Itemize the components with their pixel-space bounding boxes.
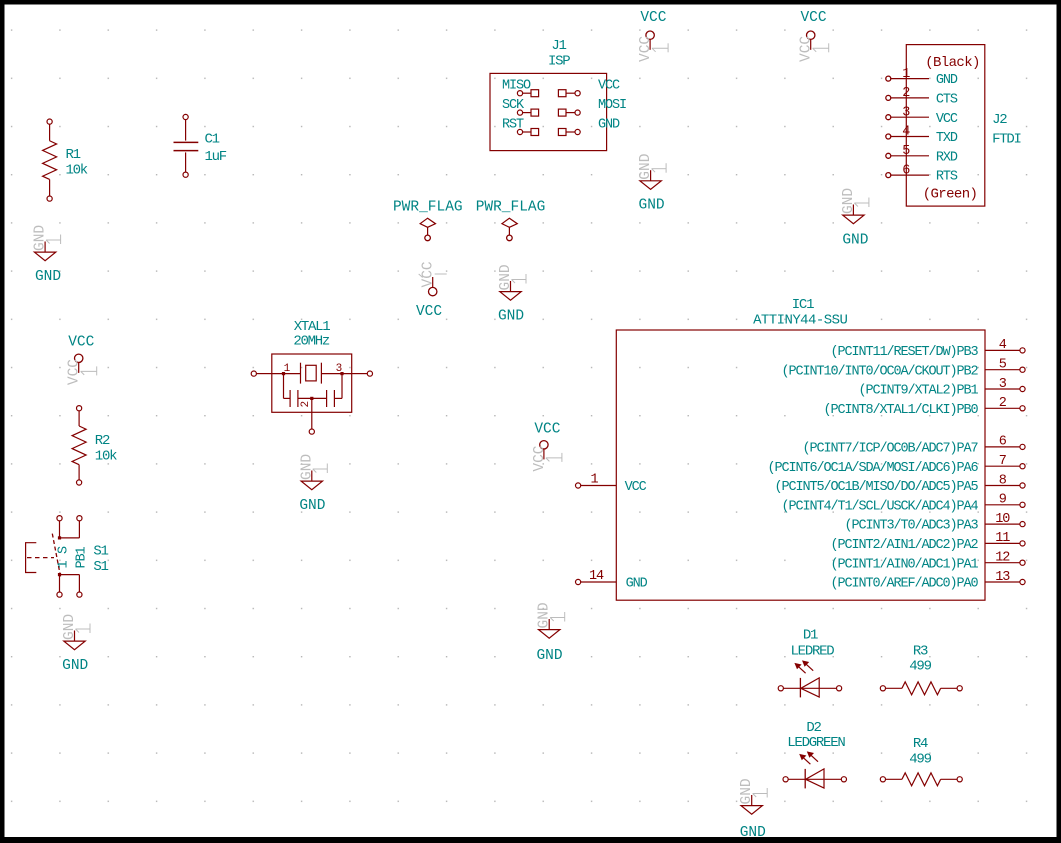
- connector J1 ISP: [490, 38, 626, 151]
- svg-text:3: 3: [999, 377, 1007, 392]
- svg-text:GND: GND: [598, 117, 620, 132]
- svg-text:(PCINT2/AIN1/ADC2)PA2: (PCINT2/AIN1/ADC2)PA2: [830, 538, 978, 553]
- svg-text:(PCINT3/T0/ADC3)PA3: (PCINT3/T0/ADC3)PA3: [844, 519, 978, 534]
- svg-text:ATTINY44-SSU: ATTINY44-SSU: [753, 313, 847, 329]
- svg-text:1: 1: [590, 472, 598, 487]
- svg-text:RXD: RXD: [936, 150, 958, 165]
- crystal XTAL1: [251, 319, 372, 434]
- svg-text:3: 3: [902, 105, 910, 120]
- power VCC top right: [799, 10, 829, 62]
- ground under R1: [33, 225, 61, 285]
- svg-text:7: 7: [999, 454, 1007, 469]
- resistor R2: [72, 406, 117, 486]
- svg-text:LEDGREEN: LEDGREEN: [787, 735, 845, 751]
- svg-text:11: 11: [995, 531, 1010, 546]
- connector J2 FTDI: [886, 45, 1021, 207]
- svg-text:(Green): (Green): [923, 187, 978, 203]
- svg-text:5: 5: [999, 358, 1007, 373]
- svg-text:PB1: PB1: [75, 546, 90, 568]
- svg-text:(PCINT8/XTAL1/CLKI)PB0: (PCINT8/XTAL1/CLKI)PB0: [823, 403, 978, 418]
- svg-text:2: 2: [902, 86, 910, 101]
- capacitor C1: [174, 114, 227, 177]
- power flag 2: [476, 199, 546, 240]
- svg-text:GND: GND: [638, 154, 654, 180]
- svg-text:1: 1: [902, 67, 910, 82]
- svg-text:10: 10: [995, 512, 1010, 527]
- svg-text:D1: D1: [803, 628, 818, 644]
- svg-text:(PCINT1/AIN0/ADC1)PA1: (PCINT1/AIN0/ADC1)PA1: [830, 557, 978, 572]
- svg-text:(PCINT5/OC1B/MISO/DO/ADC5)PA5: (PCINT5/OC1B/MISO/DO/ADC5)PA5: [774, 480, 978, 495]
- svg-text:GND: GND: [740, 825, 766, 841]
- svg-text:GND: GND: [739, 778, 755, 804]
- power flag 1: [393, 199, 463, 240]
- svg-text:SCK: SCK: [502, 98, 525, 113]
- svg-text:ISP: ISP: [548, 54, 570, 70]
- svg-text:6: 6: [902, 163, 910, 178]
- svg-text:PWR_FLAG: PWR_FLAG: [476, 199, 546, 215]
- svg-text:LEDRED: LEDRED: [791, 643, 835, 659]
- svg-text:VCC: VCC: [421, 261, 437, 287]
- svg-text:4: 4: [999, 338, 1007, 353]
- resistor R1: [43, 119, 88, 201]
- svg-text:GND: GND: [841, 188, 857, 214]
- ground bottom: [739, 778, 767, 841]
- svg-text:4: 4: [902, 125, 910, 140]
- svg-text:S1: S1: [93, 544, 108, 560]
- svg-text:VCC: VCC: [67, 359, 83, 385]
- svg-text:R2: R2: [95, 433, 110, 449]
- svg-text:2: 2: [999, 396, 1007, 411]
- svg-text:GND: GND: [299, 454, 315, 480]
- svg-text:J1: J1: [551, 38, 566, 54]
- svg-text:RST: RST: [502, 117, 524, 132]
- ground under XTAL1: [299, 454, 327, 514]
- ground below ISP: [638, 154, 666, 214]
- svg-text:C1: C1: [205, 132, 220, 148]
- power VCC top left: [638, 10, 668, 62]
- svg-text:GND: GND: [35, 269, 61, 285]
- svg-text:(PCINT11/RESET/DW)PB3: (PCINT11/RESET/DW)PB3: [830, 345, 978, 360]
- svg-text:FTDI: FTDI: [992, 131, 1021, 147]
- LED D1: [778, 628, 842, 698]
- svg-text:499: 499: [909, 752, 931, 768]
- resistor R4: [880, 736, 962, 786]
- svg-text:GND: GND: [33, 225, 49, 251]
- svg-text:(PCINT0/AREF/ADC0)PA0: (PCINT0/AREF/ADC0)PA0: [830, 577, 978, 592]
- svg-text:VCC: VCC: [799, 36, 815, 62]
- svg-text:D2: D2: [806, 720, 821, 736]
- svg-text:(PCINT7/ICP/OC0B/ADC7)PA7: (PCINT7/ICP/OC0B/ADC7)PA7: [802, 442, 978, 457]
- svg-text:CTS: CTS: [936, 93, 958, 108]
- power VCC mid inverted: [416, 261, 447, 320]
- svg-text:10k: 10k: [66, 163, 88, 179]
- svg-text:VCC: VCC: [534, 422, 560, 438]
- svg-text:12: 12: [995, 551, 1010, 566]
- svg-text:1: 1: [57, 561, 72, 569]
- power VCC above R2: [67, 335, 97, 386]
- svg-text:GND: GND: [62, 614, 78, 640]
- svg-text:GND: GND: [62, 658, 88, 674]
- svg-text:(Black): (Black): [925, 55, 980, 71]
- svg-text:20MHz: 20MHz: [293, 333, 330, 349]
- svg-text:RTS: RTS: [936, 170, 958, 185]
- svg-text:VCC: VCC: [800, 10, 826, 26]
- svg-text:VCC: VCC: [532, 445, 548, 471]
- svg-text:VCC: VCC: [640, 10, 666, 26]
- svg-text:(PCINT9/XTAL2)PB1: (PCINT9/XTAL2)PB1: [858, 384, 978, 399]
- svg-text:GND: GND: [842, 232, 868, 248]
- svg-text:TXD: TXD: [936, 131, 958, 146]
- svg-text:3: 3: [336, 363, 342, 375]
- svg-text:499: 499: [909, 659, 931, 675]
- svg-text:R1: R1: [66, 147, 81, 163]
- svg-text:VCC: VCC: [638, 36, 654, 62]
- svg-text:VCC: VCC: [625, 480, 647, 495]
- svg-text:J2: J2: [992, 112, 1007, 128]
- resistor R3: [880, 643, 962, 694]
- svg-text:VCC: VCC: [416, 304, 442, 320]
- svg-text:13: 13: [995, 570, 1010, 585]
- svg-text:VCC: VCC: [68, 335, 94, 351]
- svg-text:GND: GND: [936, 73, 958, 88]
- svg-text:9: 9: [999, 493, 1007, 508]
- svg-text:6: 6: [999, 435, 1007, 450]
- IC U1 ATTINY44-SSU: [576, 297, 1026, 600]
- svg-text:MOSI: MOSI: [598, 98, 626, 113]
- svg-text:5: 5: [902, 144, 910, 159]
- svg-text:GND: GND: [536, 648, 562, 664]
- svg-text:GND: GND: [498, 309, 524, 325]
- svg-text:GND: GND: [299, 498, 325, 514]
- svg-text:MISO: MISO: [502, 79, 531, 94]
- svg-text:GND: GND: [498, 264, 514, 290]
- svg-text:S: S: [57, 546, 72, 554]
- LED D2: [783, 720, 847, 788]
- svg-text:(PCINT10/INT0/OC0A/CKOUT)PB2: (PCINT10/INT0/OC0A/CKOUT)PB2: [781, 364, 978, 379]
- svg-text:GND: GND: [639, 198, 665, 214]
- svg-text:R3: R3: [913, 643, 928, 659]
- ground below IC: [536, 602, 564, 664]
- svg-text:1uF: 1uF: [205, 149, 227, 165]
- ground mid: [498, 264, 526, 324]
- svg-text:IC1: IC1: [792, 297, 814, 313]
- svg-text:10k: 10k: [95, 449, 117, 465]
- switch S1: [26, 516, 109, 598]
- svg-text:PWR_FLAG: PWR_FLAG: [393, 199, 463, 215]
- svg-text:VCC: VCC: [936, 112, 958, 127]
- svg-text:S1: S1: [93, 559, 108, 575]
- svg-text:(PCINT4/T1/SCL/USCK/ADC4)PA4: (PCINT4/T1/SCL/USCK/ADC4)PA4: [781, 499, 978, 514]
- svg-text:(PCINT6/OC1A/SDA/MOSI/ADC6)PA6: (PCINT6/OC1A/SDA/MOSI/ADC6)PA6: [767, 461, 978, 476]
- svg-text:GND: GND: [626, 577, 648, 592]
- svg-text:14: 14: [589, 569, 604, 584]
- svg-text:8: 8: [999, 473, 1007, 488]
- ground under S1: [62, 614, 90, 674]
- power VCC near IC pin1: [532, 422, 562, 472]
- svg-text:GND: GND: [537, 602, 553, 628]
- svg-text:R4: R4: [913, 736, 928, 752]
- svg-text:2: 2: [300, 402, 312, 408]
- svg-text:VCC: VCC: [598, 79, 620, 94]
- ground below FTDI: [841, 188, 869, 249]
